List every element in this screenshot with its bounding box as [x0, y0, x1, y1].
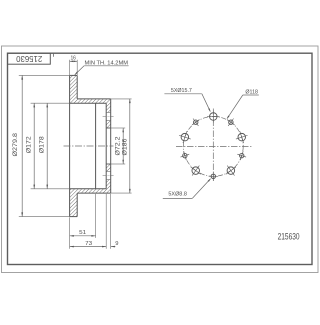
svg-text:Ø172: Ø172: [27, 136, 33, 154]
svg-text:Ø118: Ø118: [245, 89, 258, 95]
dim 279.8 extension lines: [19, 75, 70, 216]
title box: [8, 53, 51, 64]
inner frame: [8, 53, 313, 264]
large dia15.7 hole at 288 deg: [179, 131, 191, 143]
hatch: bottom strip: [77, 189, 111, 193]
large dia15.7 hole at 72 deg: [236, 131, 248, 143]
centre hole edges: [106, 128, 111, 164]
svg-text:215630: 215630: [278, 232, 300, 242]
bolt circle dia118: [183, 116, 243, 176]
outer border: [2, 46, 319, 273]
large dia15.7 hole at 216 deg: [191, 166, 201, 176]
svg-text:5XØ8.8: 5XØ8.8: [168, 191, 187, 197]
dim line dia172: [33, 103, 35, 189]
svg-text:Ø178: Ø178: [40, 136, 46, 154]
svg-text:215630: 215630: [16, 54, 42, 64]
section outline: [70, 75, 111, 216]
small dia8.8 hole at 324 deg: [192, 118, 199, 125]
large dia15.7 hole at 144 deg: [226, 166, 236, 176]
small dia8.8 hole at 252 deg: [180, 151, 189, 160]
svg-text:51: 51: [79, 230, 86, 236]
bolt hole centre ticks: [103, 116, 114, 118]
front view horizontal centreline: [176, 145, 252, 147]
dim dia186: [111, 99, 132, 193]
hatch: bottom band: [70, 189, 78, 217]
axis centreline: [64, 145, 114, 147]
front view vertical centreline: [212, 109, 214, 183]
svg-text:9: 9: [115, 241, 118, 247]
dim 51: [70, 235, 96, 237]
dim 73: [70, 246, 107, 248]
hatch: top band: [70, 75, 78, 103]
hatch: top strip: [77, 99, 111, 103]
dim line dia178: [46, 103, 48, 189]
small dia8.8 hole at 180 deg: [209, 172, 218, 181]
small dia8.8 hole at 36 deg: [227, 118, 234, 125]
hatch: flange segments: [106, 103, 111, 112]
svg-text:73: 73: [85, 241, 93, 247]
frame tick: [53, 53, 55, 57]
dim 16: [70, 60, 78, 75]
large dia15.7 hole at 0 deg: [207, 110, 219, 122]
svg-text:16: 16: [70, 56, 76, 62]
svg-text:Ø279.8: Ø279.8: [13, 132, 19, 156]
bottom extension lines: [70, 194, 111, 249]
dim dia72.2: [111, 128, 126, 164]
dim line dia279.8: [21, 75, 23, 216]
svg-text:5XØ15.7: 5XØ15.7: [171, 88, 192, 94]
small dia8.8 hole at 108 deg: [237, 151, 246, 160]
dim 9: [111, 246, 116, 248]
svg-text:Ø72.2: Ø72.2: [116, 136, 122, 156]
svg-text:Ø186: Ø186: [122, 138, 128, 156]
bolt hole edges in section: [106, 113, 111, 180]
